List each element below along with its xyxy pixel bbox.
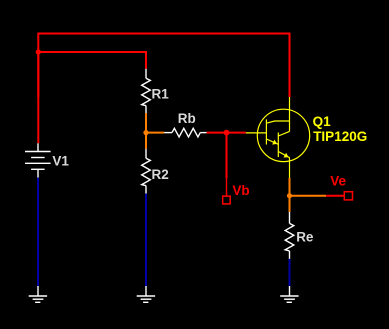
wire base node down to test point Vb [226, 133, 228, 179]
svg-text:Rb: Rb [178, 111, 196, 126]
test point Ve [344, 192, 352, 200]
ground below R2 [137, 286, 155, 302]
ground below Re [280, 286, 298, 302]
base bar T2 [277, 133, 279, 158]
circle [257, 109, 309, 161]
wire V1 to ground [37, 178, 39, 287]
svg-text:V1: V1 [52, 154, 69, 169]
svg-text:Vb: Vb [232, 183, 249, 198]
resistor R2 [142, 149, 151, 194]
wire second rail to R1 [38, 52, 146, 69]
T1 emitter arrowhead [272, 140, 277, 145]
T2 emitter [278, 152, 290, 158]
wire emitter node to Re [289, 196, 291, 212]
resistor Rb [164, 128, 207, 137]
T1 collector [266, 121, 289, 123]
battery V1 [25, 143, 51, 177]
svg-text:R2: R2 [152, 167, 169, 182]
svg-text:Ve: Ve [330, 174, 346, 189]
wire left rail down to V1 [37, 52, 39, 143]
wire Rb to base node [207, 132, 246, 134]
wire top rail [38, 34, 289, 98]
ground below V1 [29, 286, 47, 302]
svg-text:R1: R1 [152, 86, 170, 101]
wire divider node to R2 [145, 133, 147, 149]
wire R2 to ground [145, 194, 147, 287]
pin emitter lead [289, 158, 291, 178]
wire red stub to test point Ve [326, 195, 344, 197]
node divider junction [143, 130, 148, 135]
transistor Q1 [246, 97, 310, 178]
node base junction [224, 130, 230, 136]
svg-text:Re: Re [296, 229, 314, 244]
wire R1 to divider node [145, 113, 147, 133]
pin collector lead [289, 97, 291, 131]
T2 emitter arrowhead [284, 153, 289, 158]
wire Re to ground [289, 259, 291, 286]
resistor R1 [142, 69, 151, 113]
pin base lead [246, 132, 267, 134]
node junction left rail [36, 49, 41, 54]
resistor Re [285, 212, 294, 259]
test point Vb [223, 178, 231, 204]
T1 emitter [266, 139, 278, 144]
node emitter junction [287, 193, 292, 198]
svg-text:Q1: Q1 [313, 114, 332, 129]
wire emitter to node [289, 178, 291, 196]
wire emitter node to Ve [290, 195, 327, 197]
wire divider node to Rb [146, 132, 164, 134]
base bar T1 [265, 119, 267, 144]
T2 collector [278, 131, 289, 136]
svg-text:TIP120G: TIP120G [313, 129, 367, 144]
